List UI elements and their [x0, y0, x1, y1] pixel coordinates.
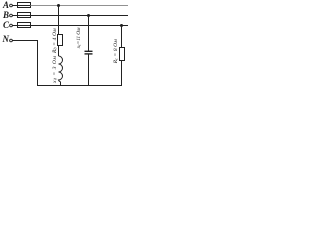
fuse F2	[18, 13, 31, 18]
wire branch 3 down from C	[121, 26, 123, 48]
wire A bus	[31, 5, 129, 7]
terminal N	[10, 39, 13, 42]
svg-text:A: A	[2, 0, 9, 10]
node junction on C	[120, 24, 123, 27]
wire resistor to coil	[58, 46, 60, 57]
terminal A	[10, 4, 13, 7]
svg-text:N: N	[2, 34, 10, 44]
fuse F1	[18, 3, 31, 8]
terminal B	[10, 14, 13, 17]
capacitor xc plate bottom	[85, 53, 93, 55]
wire B terminal to fuse	[13, 15, 18, 17]
resistor Rd	[58, 35, 63, 46]
wire resistor C to bottom bus	[121, 61, 123, 86]
wire N vertical	[37, 40, 39, 86]
resistor Rc	[120, 48, 125, 61]
svg-text:xд = 3 Ом: xд = 3 Ом	[52, 56, 58, 85]
background	[0, 0, 129, 93]
node junction on B	[87, 14, 90, 17]
svg-text:Rс = 8 Ом: Rс = 8 Ом	[113, 39, 119, 65]
node junction on A	[57, 4, 60, 7]
wire capacitor to bottom bus	[88, 55, 90, 86]
inductor xd	[59, 56, 63, 82]
terminal C	[10, 24, 13, 27]
svg-text:C: C	[3, 20, 10, 30]
wire coil to bottom bus	[59, 82, 61, 86]
capacitor xc plate top	[85, 50, 93, 52]
svg-text:B: B	[2, 10, 9, 20]
wire B bus	[31, 15, 129, 17]
wire branch 2 down from B	[88, 16, 90, 51]
wire N horizontal	[13, 40, 38, 42]
svg-text:Rд = 4 Ом: Rд = 4 Ом	[51, 28, 58, 54]
wire neutral bottom bus	[37, 85, 122, 87]
wire C bus	[31, 25, 129, 27]
wire A terminal to fuse	[13, 5, 18, 7]
svg-text:xс=11 Ом: xс=11 Ом	[76, 27, 82, 49]
wire branch 1 down from A	[58, 6, 60, 35]
wire C terminal to fuse	[13, 25, 18, 27]
fuse F3	[18, 23, 31, 28]
